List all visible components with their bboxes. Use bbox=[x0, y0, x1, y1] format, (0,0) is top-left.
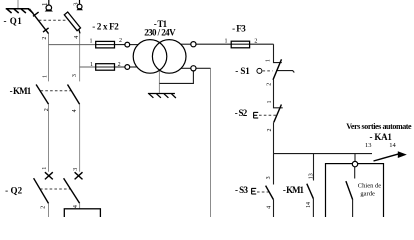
svg-text:4: 4 bbox=[266, 206, 272, 209]
svg-text:14: 14 bbox=[306, 202, 312, 208]
svg-text:13: 13 bbox=[309, 173, 315, 179]
svg-text:3: 3 bbox=[72, 2, 79, 5]
svg-text:3: 3 bbox=[73, 168, 79, 171]
svg-text:230 / 24V: 230 / 24V bbox=[144, 27, 176, 37]
svg-text:1: 1 bbox=[267, 101, 273, 104]
svg-text:3: 3 bbox=[72, 74, 78, 77]
svg-text:1: 1 bbox=[225, 39, 228, 45]
svg-text:- KA1: - KA1 bbox=[370, 132, 393, 142]
svg-text:- Q2: - Q2 bbox=[5, 186, 23, 196]
svg-text:14: 14 bbox=[389, 142, 396, 149]
svg-text:- Q1: - Q1 bbox=[4, 16, 23, 26]
svg-text:1: 1 bbox=[42, 167, 48, 170]
svg-text:2: 2 bbox=[119, 38, 122, 44]
svg-text:- KM1: - KM1 bbox=[283, 185, 305, 195]
svg-text:2: 2 bbox=[42, 37, 48, 40]
svg-text:2: 2 bbox=[118, 62, 121, 68]
svg-text:Chien de: Chien de bbox=[358, 183, 381, 190]
svg-text:- KM1: - KM1 bbox=[10, 86, 32, 96]
svg-text:- F3: - F3 bbox=[232, 24, 246, 34]
svg-text:4: 4 bbox=[72, 109, 78, 112]
svg-text:- S1: - S1 bbox=[235, 66, 250, 76]
svg-text:2: 2 bbox=[44, 108, 50, 111]
svg-text:2: 2 bbox=[254, 39, 257, 45]
svg-text:4: 4 bbox=[73, 205, 79, 208]
svg-text:2: 2 bbox=[41, 206, 47, 209]
svg-text:1: 1 bbox=[42, 75, 48, 78]
svg-text:2: 2 bbox=[267, 129, 273, 132]
svg-text:3: 3 bbox=[266, 176, 272, 179]
svg-text:2: 2 bbox=[267, 83, 273, 86]
svg-text:1: 1 bbox=[266, 59, 272, 62]
svg-text:13: 13 bbox=[365, 142, 372, 149]
svg-text:garde: garde bbox=[360, 191, 375, 198]
svg-text:4: 4 bbox=[74, 36, 80, 39]
svg-text:- 2 x F2: - 2 x F2 bbox=[92, 21, 119, 31]
svg-text:- S2: - S2 bbox=[235, 108, 248, 118]
svg-text:Vers sorties automate: Vers sorties automate bbox=[346, 122, 412, 131]
svg-text:1: 1 bbox=[90, 62, 93, 68]
svg-text:1: 1 bbox=[41, 2, 49, 6]
svg-text:- S3: - S3 bbox=[235, 185, 249, 195]
svg-text:1: 1 bbox=[90, 38, 93, 44]
